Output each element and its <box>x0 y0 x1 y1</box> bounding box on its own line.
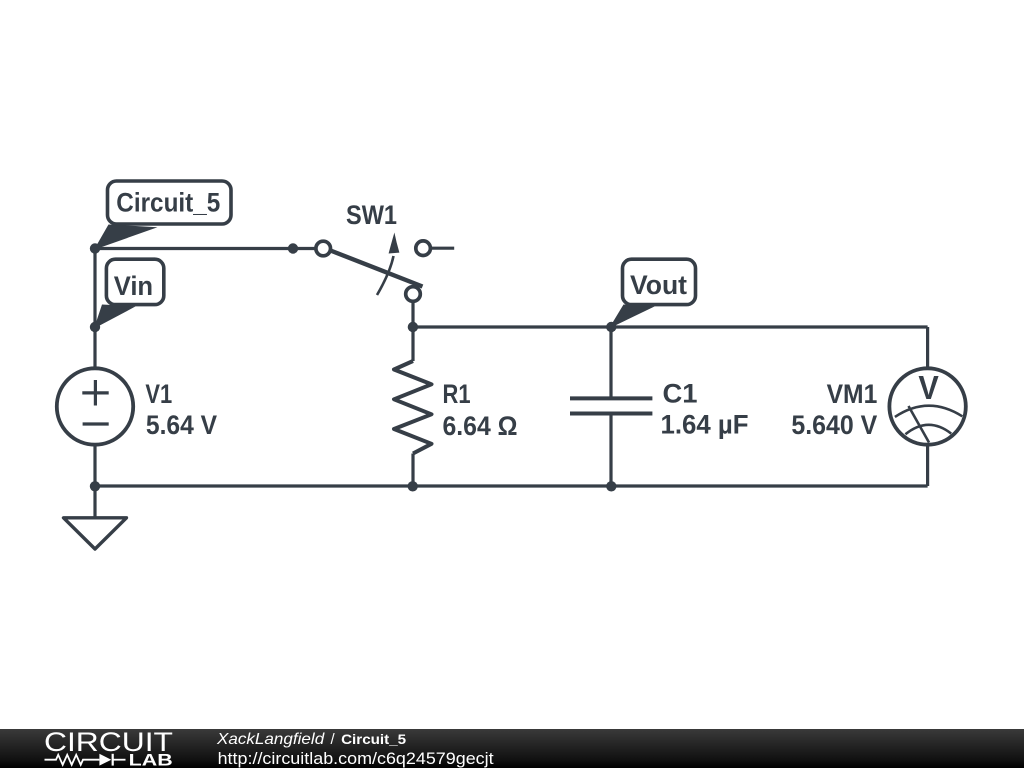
wire: ground stub <box>93 486 96 518</box>
net label Circuit_5 box <box>108 181 232 224</box>
resistor R1 <box>394 361 432 454</box>
ground symbol <box>64 518 127 549</box>
svg-text:5.640 V: 5.640 V <box>791 410 877 440</box>
logo resistor glyph <box>45 755 100 765</box>
switch SW1 <box>316 241 431 301</box>
wire: V1 bottom lead <box>93 444 96 486</box>
node: switch input junction <box>288 243 298 253</box>
wire: Vout rail horizontal <box>413 325 928 328</box>
wire: switch bottom pin down to Vout rail <box>411 300 414 327</box>
wire: R1 top lead <box>411 327 414 361</box>
wire: C1 bottom lead <box>609 415 612 486</box>
wire: Vin node to switch left pin <box>95 247 316 250</box>
SW1 pin 1 terminal circle <box>316 241 331 256</box>
VM1 meter scale arc lower <box>905 425 951 434</box>
svg-text:Circuit_5: Circuit_5 <box>341 731 406 747</box>
wire: VM1 right vertical top <box>926 327 929 369</box>
wire: switch right stub <box>431 247 455 250</box>
SW1 actuation arrow arc <box>377 256 394 295</box>
svg-text:6.64 Ω: 6.64 Ω <box>443 411 518 441</box>
net label Vout pointer tail <box>609 305 655 329</box>
node: C1 bottom junction <box>606 481 616 491</box>
footer bar <box>0 729 1024 768</box>
svg-text:Vout: Vout <box>630 270 687 300</box>
SW1 lever arm <box>331 251 423 287</box>
svg-text:Vin: Vin <box>114 271 153 301</box>
wire: VM1 right vertical bottom <box>926 444 929 486</box>
svg-text:http://circuitlab.com/c6q24579: http://circuitlab.com/c6q24579gecjt <box>218 749 494 768</box>
SW1 arrowhead <box>389 233 400 254</box>
svg-text:VM1: VM1 <box>827 379 878 409</box>
SW1 unused terminal circle (right) <box>416 241 431 256</box>
node: Vin top-left junction <box>90 243 100 253</box>
node: Vin label junction <box>90 322 100 332</box>
node: R1 top junction <box>408 322 418 332</box>
svg-text:/: / <box>331 731 336 748</box>
svg-text:R1: R1 <box>443 379 471 409</box>
svg-text:LAB: LAB <box>129 750 173 768</box>
wire: Vin vertical, node to V1 top <box>93 249 96 369</box>
logo diode glyph <box>99 754 111 766</box>
node: ground left junction <box>90 481 100 491</box>
svg-text:1.64 µF: 1.64 µF <box>661 410 749 440</box>
voltmeter VM1 <box>889 368 965 444</box>
svg-text:Circuit_5: Circuit_5 <box>116 188 220 218</box>
wire: ground rail horizontal <box>95 484 928 487</box>
SW1 throw terminal circle (bottom) <box>406 287 421 302</box>
node: R1 bottom junction <box>408 481 418 491</box>
capacitor C1 <box>570 398 652 413</box>
svg-text:V1: V1 <box>145 379 172 409</box>
voltage source V1 <box>57 368 133 444</box>
VM1 meter scale arc upper <box>895 406 962 417</box>
svg-text:C1: C1 <box>663 378 698 408</box>
wire: R1 bottom lead <box>411 454 414 487</box>
net label Circuit_5 pointer tail <box>94 225 158 250</box>
svg-text:V: V <box>918 369 938 406</box>
net label Vout box <box>623 259 696 304</box>
wire: C1 top lead <box>609 327 612 397</box>
svg-text:XackLangfield: XackLangfield <box>216 731 325 748</box>
net label Vin box <box>106 259 163 304</box>
net label Vin pointer tail <box>94 305 136 329</box>
svg-text:5.64 V: 5.64 V <box>146 410 217 440</box>
VM1 needle <box>909 406 930 443</box>
svg-text:SW1: SW1 <box>346 200 397 230</box>
node: Vout junction <box>606 322 616 332</box>
